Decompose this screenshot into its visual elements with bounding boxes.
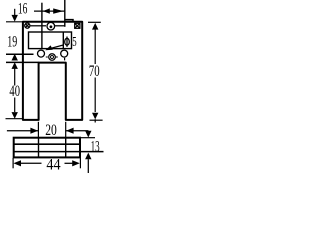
label phi5 (65, 38, 70, 45)
dim 40: bottom arrow (14, 98, 16, 113)
dim 70: top arrow (92, 23, 98, 30)
dim 16: line (34, 10, 65, 12)
dim 70: bottom arrow (92, 113, 98, 120)
bottom view outline (14, 138, 80, 158)
dim 70: top tick (88, 21, 101, 23)
dim 44: right tick (79, 158, 81, 168)
dim 20: left line and arrow (7, 130, 38, 132)
dim 44: left tick (12, 158, 14, 168)
screw hole right (square with X) (75, 23, 80, 28)
bottom view inner vertical left (38, 138, 40, 158)
dim 19: bottom arrow (12, 54, 18, 61)
dim 16: right arrow (53, 8, 63, 13)
dim 44: left arrow (13, 160, 21, 166)
window rectangle (29, 32, 72, 49)
hole circle O2 (61, 50, 68, 57)
svg-text:70: 70 (89, 63, 100, 80)
wire slot-top extension left (6, 61, 39, 63)
dim 13: bottom arrow (85, 153, 91, 160)
dim 16: left arrow (43, 8, 50, 13)
svg-text:19: 19 (7, 33, 17, 50)
bottom view inner line 1 (14, 143, 80, 145)
top tab on body (65, 20, 73, 22)
leader arrow to hole O1 (49, 45, 63, 49)
part body outline (front view, U-shape) (23, 22, 82, 120)
window divider right (62, 32, 64, 49)
bottom view inner vertical right (65, 138, 67, 158)
bottom view inner line 2 + 13 extension (14, 151, 104, 153)
bottom view top edge extension right (80, 137, 95, 139)
wire centerline through top holes (31, 25, 47, 27)
stub below O2 (64, 58, 66, 61)
wire bottom extension left (6, 118, 23, 120)
hole circle top center with dot (47, 22, 55, 30)
svg-text:20: 20 (45, 122, 57, 139)
svg-text:13: 13 (91, 138, 100, 155)
concentric ring with ticks (49, 54, 56, 61)
screw hole left (circle with X) (25, 23, 30, 28)
svg-text:44: 44 (46, 156, 60, 173)
hole circle O1 (38, 50, 45, 57)
dim 44: right arrow (65, 162, 73, 164)
dim 20: right line and arrow (66, 130, 88, 132)
dim 40: top arrow (12, 62, 18, 69)
wire internal line y54 (6, 53, 34, 55)
window divider left / 16-dim left extension (41, 3, 43, 49)
dim 19: top arrow (14, 9, 16, 15)
svg-text:16: 16 (18, 0, 28, 17)
wire top edge extension left (6, 21, 23, 23)
dim 20: left extension (37, 122, 39, 138)
dim 13: top arrow (87, 131, 89, 132)
dim 70: bottom tick (90, 119, 103, 121)
svg-text:5: 5 (72, 35, 76, 50)
16-dim right extension (64, 0, 66, 27)
dim 20: right extension (65, 122, 67, 138)
